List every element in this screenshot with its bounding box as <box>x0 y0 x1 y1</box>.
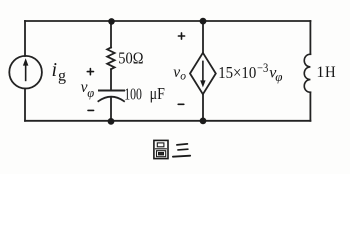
current source ig circle <box>9 56 42 89</box>
svg-text:μF: μF <box>150 85 165 103</box>
wire bottom <box>25 120 310 122</box>
svg-text:φ: φ <box>87 86 94 100</box>
wire top <box>25 20 310 22</box>
caption glyph SAN top stroke <box>177 144 188 145</box>
caption glyph TU (figure) outer box <box>154 140 168 158</box>
caption glyph SAN bottom stroke <box>173 156 190 157</box>
dependent source arrow <box>202 61 204 82</box>
inductor 1H coil <box>304 54 310 92</box>
svg-text:15×10: 15×10 <box>218 64 256 82</box>
svg-text:50Ω: 50Ω <box>118 49 143 67</box>
wire left branch upper <box>24 21 26 56</box>
wire resistor to capacitor <box>110 69 112 90</box>
wire right branch lower <box>309 92 311 121</box>
wire middle branch upper <box>110 21 112 48</box>
node dot bottom middle <box>108 118 115 125</box>
capacitor curved bottom plate <box>98 97 124 102</box>
svg-text:−3: −3 <box>257 61 268 75</box>
svg-text:φ: φ <box>275 69 282 84</box>
wire capacitor to bottom <box>110 97 112 121</box>
minus sign v_o <box>178 103 184 105</box>
resistor 50ohm zigzag <box>107 48 114 70</box>
plus sign v_o <box>178 33 184 39</box>
node dot bottom dep source <box>200 118 207 125</box>
plus sign v_phi <box>87 69 93 75</box>
node dot top dep source <box>200 18 207 25</box>
svg-text:1: 1 <box>316 64 324 81</box>
node dot top middle <box>108 18 115 25</box>
caption glyph TU middle bar <box>155 148 166 150</box>
wire dep source upper <box>202 21 204 53</box>
caption glyph SAN middle stroke <box>178 148 188 151</box>
capacitor top plate <box>99 90 124 92</box>
svg-text:o: o <box>180 71 186 83</box>
svg-text:g: g <box>58 68 66 85</box>
wire dep source lower <box>202 94 204 121</box>
caption glyph TU inner mark <box>159 153 164 155</box>
dependent source diamond <box>190 53 216 94</box>
svg-text:H: H <box>325 63 336 81</box>
current source ig arrow <box>25 65 27 82</box>
caption glyph TU small top box <box>157 143 164 147</box>
wire left branch lower <box>24 89 26 121</box>
wire right branch upper <box>309 21 311 54</box>
minus sign v_phi <box>88 109 94 111</box>
svg-text:100: 100 <box>124 86 142 104</box>
svg-text:i: i <box>52 59 58 81</box>
caption glyph TU lower box <box>157 151 166 157</box>
